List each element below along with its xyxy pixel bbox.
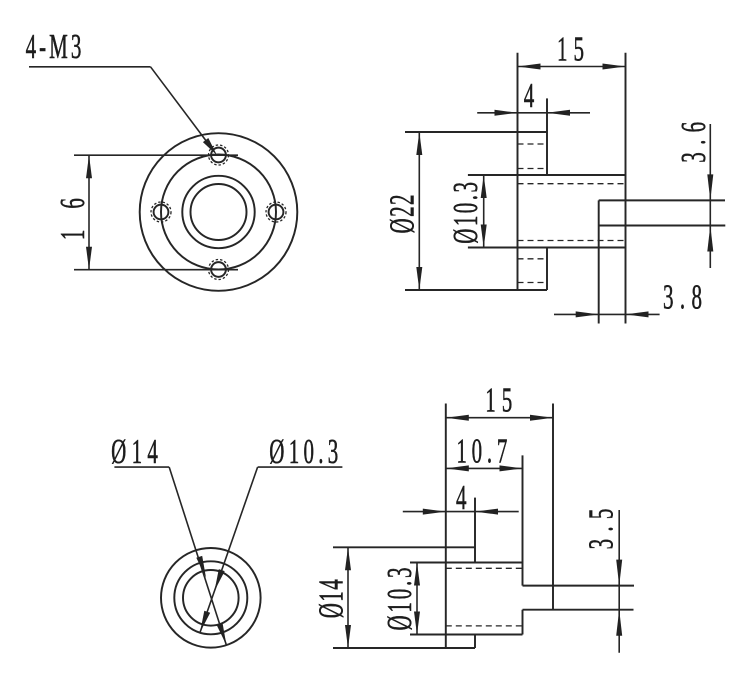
dim 15 line — [518, 66, 626, 68]
svg-text:Ø10.3: Ø10.3 — [380, 565, 419, 631]
dim 16 line — [88, 155, 90, 270]
leader Ø14 arrow end — [217, 623, 227, 645]
svg-text:4-M3: 4-M3 — [26, 27, 85, 66]
dim Ø10.3 line — [483, 175, 485, 248]
thread circle Ø8 — [183, 570, 239, 626]
boss top edge / Ø10.3 ext — [468, 174, 626, 176]
dim Ø10.3 arrow up — [481, 175, 487, 198]
dim 16 arrow down — [86, 247, 92, 270]
leader line Ø14 — [169, 467, 226, 645]
dim 3.6 line — [709, 124, 711, 268]
dim Ø10.3 line (bottom) — [416, 563, 418, 635]
dim 3.8 line — [554, 313, 660, 315]
dim 4 arrow right (bottom) — [475, 509, 498, 515]
svg-text:4: 4 — [524, 76, 538, 115]
svg-text:3.5: 3.5 — [582, 506, 621, 550]
stub bottom edge / 3.6 ext — [599, 225, 726, 227]
M3 hole (right) thread circle — [266, 202, 286, 222]
leader Ø14 arrow mid — [196, 556, 206, 578]
dim Ø22 line — [418, 132, 420, 290]
step circle Ø10.3 — [174, 561, 247, 634]
flange bottom edge / Ø22 ext — [405, 289, 547, 291]
dim Ø10.3 arrow up (bottom) — [414, 563, 420, 586]
dim Ø22 arrow up — [416, 132, 422, 155]
flange left edge / 15 ext — [517, 53, 519, 290]
dim 15 arrow right (bottom) — [530, 415, 553, 421]
flange right edge lower — [546, 248, 548, 291]
svg-text:4: 4 — [456, 478, 470, 517]
dim 4 arrow right — [547, 110, 570, 116]
svg-text:Ø14: Ø14 — [111, 433, 161, 472]
thread hidden line top (bottom view) — [446, 567, 523, 569]
flange top edge / Ø22 ext — [405, 131, 547, 133]
M3 hole hidden line c — [518, 258, 548, 260]
M3 hole (top) bore — [211, 148, 226, 163]
dim 10.7 arrow left — [446, 465, 469, 471]
flange outer circle Ø22 — [140, 133, 298, 291]
dim 4 line — [477, 112, 590, 114]
svg-text:10.7: 10.7 — [456, 432, 510, 471]
dim 3.6 arrow up — [707, 226, 713, 252]
stub left edge / 3.8 ext — [598, 200, 600, 323]
M3 hole (bottom) thread circle — [209, 260, 229, 280]
boss bottom edge / Ø10.3 ext — [468, 247, 626, 249]
bolt circle Ø16 — [161, 155, 276, 270]
M3 hole hidden line a — [518, 143, 548, 145]
M3 hole (bottom) bore — [211, 262, 226, 277]
thread bore circle Ø8 — [191, 184, 247, 240]
dim 4 arrow left (bottom) — [423, 509, 446, 515]
dim 16 extension bottom — [74, 269, 238, 271]
dim 3.8 arrow right — [576, 311, 599, 317]
leader arrow 4-M3 — [203, 138, 217, 155]
dim 15 arrow left — [518, 64, 541, 70]
dim 16 arrow up — [86, 155, 92, 178]
collar right face upper / 4 ext — [474, 498, 476, 563]
dim 15 arrow left (bottom) — [446, 415, 469, 421]
boss end face / 15+3.8 ext — [625, 53, 627, 324]
svg-text:Ø10.3: Ø10.3 — [269, 433, 341, 472]
15 right ext through stub — [552, 404, 554, 610]
dim Ø22 arrow down — [416, 267, 422, 290]
svg-text:Ø22: Ø22 — [383, 192, 422, 234]
collar bottom edge / Ø14 ext — [333, 647, 475, 649]
M3 hole (left) thread circle — [151, 202, 171, 222]
dim 15 arrow right — [603, 64, 626, 70]
leader underline Ø14 — [114, 466, 169, 468]
collar top edge / Ø14 ext — [333, 546, 475, 548]
M3 hole hidden line d — [518, 282, 548, 284]
dim Ø14 line — [347, 547, 349, 648]
dim 4 arrow left — [495, 110, 518, 116]
dim Ø10.3 arrow down — [481, 225, 487, 248]
dim 3.6 arrow down — [707, 174, 713, 200]
leader underline 4-M3 — [29, 66, 151, 68]
dim 4 line (bottom) — [403, 511, 519, 513]
flange right edge upper / 4 ext — [546, 98, 548, 175]
leader Ø10.3 arrow mid — [215, 569, 225, 591]
M3 hole hidden line b — [518, 168, 548, 170]
collar left face / 15 ext — [445, 404, 447, 649]
dim 10.7 arrow right — [500, 465, 523, 471]
dim Ø14 arrow up — [345, 547, 351, 570]
dim Ø10.3 arrow down (bottom) — [414, 612, 420, 635]
stub bottom edge / 3.5 ext — [523, 609, 634, 611]
body top edge / Ø10.3 ext — [410, 562, 523, 564]
thread hidden line bottom (bottom view) — [446, 625, 523, 627]
body bottom edge / Ø10.3 ext — [410, 634, 523, 636]
svg-text:3.8: 3.8 — [663, 278, 705, 317]
M3 hole (top) thread circle — [209, 145, 229, 165]
leader underline Ø10.3 — [258, 466, 343, 468]
leader Ø10.3 arrow end — [200, 611, 210, 633]
outer circle Ø14 — [161, 548, 261, 648]
stub top edge / 3.5 ext — [523, 585, 635, 587]
M3 hole (left) bore — [154, 205, 169, 220]
body right face upper / 10.7 ext — [522, 455, 524, 585]
dim Ø14 arrow down — [345, 625, 351, 648]
dim 3.8 arrow left — [626, 311, 649, 317]
dim 3.5 arrow down — [616, 560, 622, 586]
dim 3.5 arrow up — [616, 610, 622, 636]
stub top edge / 3.6 ext — [599, 199, 725, 201]
thread hidden line top — [518, 183, 626, 185]
boss circle Ø10.3 — [182, 176, 254, 248]
thread hidden line bottom — [518, 240, 626, 242]
leader line 4-M3 — [151, 67, 214, 150]
dim 10.7 line — [446, 467, 523, 469]
svg-text:Ø10.3: Ø10.3 — [447, 179, 486, 244]
leader line Ø10.3 — [200, 467, 258, 632]
dim 16 extension top — [74, 154, 238, 156]
M3 hole (right) bore — [269, 205, 284, 220]
svg-text:3.6: 3.6 — [675, 119, 714, 163]
body right face lower — [522, 610, 524, 635]
dim 15 line (bottom) — [446, 417, 553, 419]
svg-text:Ø14: Ø14 — [312, 576, 351, 618]
dim 3.5 line — [618, 510, 620, 653]
collar right face lower — [474, 635, 476, 649]
